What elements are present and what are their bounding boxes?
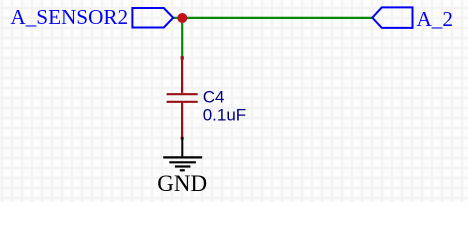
ground bar 4 bbox=[180, 169, 185, 171]
capacitor C4 pin 2 (bottom lead) bbox=[181, 103, 183, 139]
svg-text:GND: GND bbox=[157, 171, 207, 196]
capacitor C4 bottom plate bbox=[167, 101, 198, 103]
ground bar 1 bbox=[163, 156, 202, 158]
capacitor C4 pin 1 (top lead) bbox=[181, 56, 183, 93]
svg-text:0.1uF: 0.1uF bbox=[203, 105, 246, 124]
svg-text:A_2: A_2 bbox=[417, 7, 454, 31]
port A_SENSOR2 bbox=[132, 8, 173, 28]
wire A_SENSOR2 to A_2 (horizontal) bbox=[173, 17, 373, 19]
wire junction to capacitor (vertical) bbox=[181, 18, 183, 57]
svg-text:C4: C4 bbox=[203, 88, 225, 107]
ground stem bbox=[181, 137, 183, 157]
port A_2 bbox=[372, 7, 412, 28]
capacitor C4 top plate bbox=[167, 93, 198, 95]
ground bar 2 bbox=[169, 161, 196, 163]
capacitor C4 pin 1 hotspot bbox=[181, 56, 184, 59]
capacitor C4 pin 2 hotspot bbox=[181, 137, 184, 140]
junction dot bbox=[177, 13, 187, 23]
ground bar 3 bbox=[175, 165, 191, 167]
svg-text:A_SENSOR2: A_SENSOR2 bbox=[10, 5, 128, 29]
